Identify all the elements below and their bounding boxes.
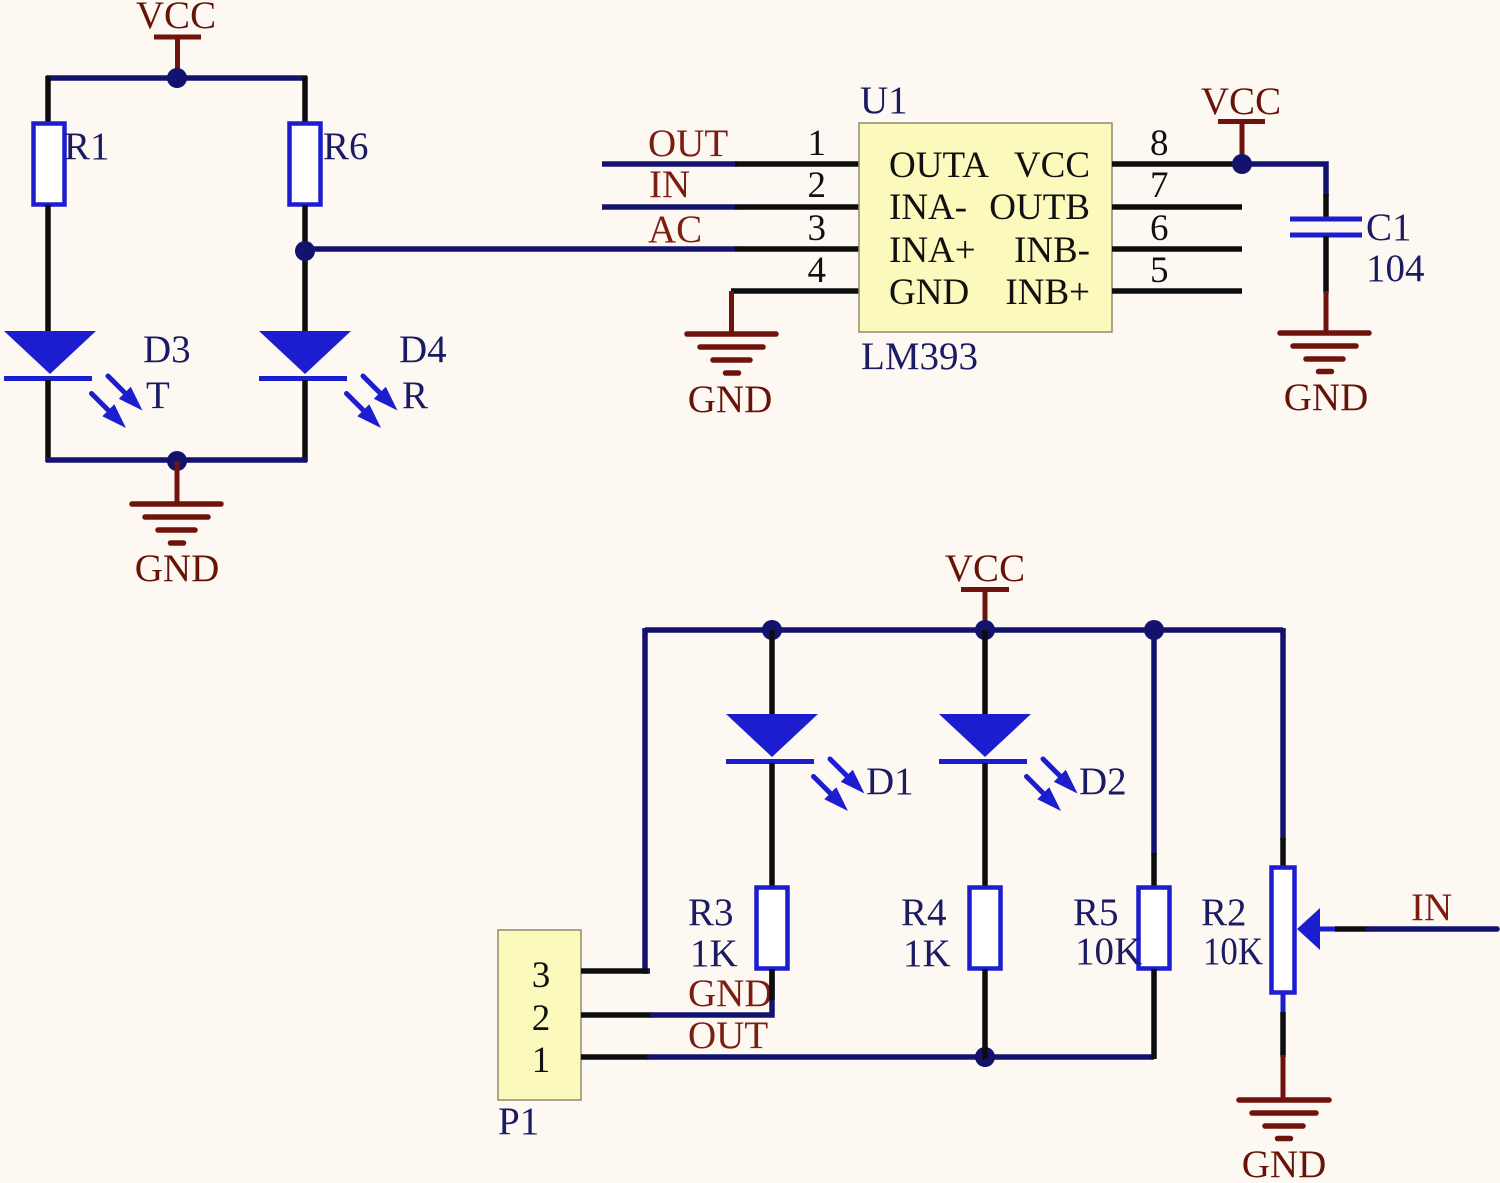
svg-text:GND: GND xyxy=(135,547,220,590)
svg-text:OUTA: OUTA xyxy=(889,145,989,186)
svg-text:GND: GND xyxy=(889,272,969,313)
svg-text:D3: D3 xyxy=(143,328,191,371)
node VCC junction xyxy=(167,68,187,88)
svg-text:VCC: VCC xyxy=(945,547,1025,590)
wire C1 bottom pin xyxy=(1323,236,1329,293)
resistor R5 10K xyxy=(1073,888,1170,974)
svg-text:INB-: INB- xyxy=(1014,230,1090,271)
LED D3 xyxy=(4,328,191,428)
wire D2 to R4 xyxy=(982,763,988,887)
svg-text:2: 2 xyxy=(808,165,827,206)
wire R6 bottom to D4 xyxy=(302,205,308,333)
ground symbol (C1) xyxy=(1280,291,1369,419)
wire D1 top lead xyxy=(769,630,775,716)
svg-text:R2: R2 xyxy=(1201,891,1247,934)
svg-text:1K: 1K xyxy=(690,932,738,975)
svg-text:104: 104 xyxy=(1366,247,1425,290)
wire IN net xyxy=(602,204,737,210)
svg-text:3: 3 xyxy=(532,955,551,996)
svg-text:OUT: OUT xyxy=(648,122,728,165)
pin 1 stub xyxy=(735,161,860,167)
svg-text:T: T xyxy=(146,374,170,417)
wire bottom rail left xyxy=(46,457,307,463)
node rail-VCC junction xyxy=(975,620,995,640)
svg-text:VCC: VCC xyxy=(1201,80,1281,123)
svg-text:D1: D1 xyxy=(866,760,914,803)
wire C1 top pin xyxy=(1323,194,1329,219)
svg-text:1: 1 xyxy=(808,123,827,164)
svg-text:GND: GND xyxy=(688,378,773,421)
svg-text:VCC: VCC xyxy=(1014,145,1090,186)
node rail-R5 junction xyxy=(1144,620,1164,640)
node pin8-VCC junction xyxy=(1232,154,1252,174)
wire R2 wiper pin xyxy=(1335,926,1369,932)
svg-text:IN: IN xyxy=(1411,886,1452,929)
svg-text:5: 5 xyxy=(1150,250,1169,291)
wire GND net to R3 xyxy=(650,969,772,1015)
wire R4 bottom pin xyxy=(982,969,988,1059)
svg-text:R4: R4 xyxy=(901,891,947,934)
resistor R3 1K xyxy=(688,888,788,976)
pin P1-3 stub xyxy=(581,968,648,974)
potentiometer R2 10K xyxy=(1201,868,1337,993)
svg-text:IN: IN xyxy=(649,163,690,206)
pin P1-2 stub xyxy=(581,1012,652,1018)
LED D1 xyxy=(726,714,914,811)
wire R2 top pin xyxy=(1280,838,1286,867)
pin 3 stub xyxy=(735,246,860,252)
wire OUT net xyxy=(602,161,737,167)
svg-text:OUT: OUT xyxy=(688,1014,768,1057)
svg-text:P1: P1 xyxy=(498,1100,539,1143)
LED D4 xyxy=(259,328,447,428)
svg-text:GND: GND xyxy=(1284,376,1369,419)
svg-text:4: 4 xyxy=(808,250,827,291)
svg-text:AC: AC xyxy=(648,208,702,251)
ground symbol (R2, bottom right) xyxy=(1239,1055,1329,1183)
power symbol VCC (top right) xyxy=(1201,80,1281,159)
pin 7 stub xyxy=(1112,204,1242,210)
power symbol VCC (top left) xyxy=(136,0,216,73)
pin 4 stub xyxy=(731,288,860,294)
wire R3 bottom pin xyxy=(769,969,775,1000)
wire VCC to C1 xyxy=(1242,164,1326,196)
svg-text:D2: D2 xyxy=(1079,760,1127,803)
wire D4 bottom lead xyxy=(302,380,308,462)
pin P1-1 stub xyxy=(581,1054,649,1060)
wire D1 to R3 xyxy=(769,763,775,887)
LED D2 xyxy=(939,714,1127,811)
ground symbol (pin 4) xyxy=(687,291,776,421)
svg-text:INA-: INA- xyxy=(889,187,967,228)
svg-text:2: 2 xyxy=(532,998,551,1039)
op-amp U1 LM393 xyxy=(859,79,1112,378)
svg-text:1: 1 xyxy=(532,1040,551,1081)
pin 5 stub xyxy=(1112,288,1242,294)
svg-text:R6: R6 xyxy=(323,125,369,168)
wire R6 top lead xyxy=(302,76,308,124)
svg-text:U1: U1 xyxy=(860,79,908,122)
wire R5 bottom pin xyxy=(1151,969,1157,1059)
wire VCC rail bottom xyxy=(645,627,1283,633)
connector P1 xyxy=(498,930,581,1143)
svg-text:R5: R5 xyxy=(1073,891,1119,934)
pin 8 stub xyxy=(1112,161,1242,167)
svg-text:R: R xyxy=(402,374,428,417)
ground symbol (top left) xyxy=(132,461,221,590)
wire D2 top lead xyxy=(982,630,988,716)
wire R1 top lead xyxy=(45,76,51,124)
pin 2 stub xyxy=(735,204,860,210)
wire top rail left xyxy=(46,75,307,81)
node R6-D4-AC junction xyxy=(295,241,315,261)
node OUT-R4 junction xyxy=(975,1047,995,1067)
wire D3 bottom lead xyxy=(45,380,51,462)
wire OUT net xyxy=(647,1054,1154,1060)
wire rail to R2 xyxy=(1280,628,1286,840)
svg-text:D4: D4 xyxy=(399,328,447,371)
svg-text:3: 3 xyxy=(808,208,827,249)
resistor R4 1K xyxy=(901,888,1001,976)
resistor R6 xyxy=(290,124,321,205)
node rail-D1 junction xyxy=(762,620,782,640)
power symbol VCC (bottom) xyxy=(945,547,1025,627)
svg-text:1K: 1K xyxy=(903,932,951,975)
wire R1 bottom to D3 xyxy=(45,205,51,333)
svg-text:7: 7 xyxy=(1150,165,1169,206)
svg-text:VCC: VCC xyxy=(136,0,216,37)
node GND junction left xyxy=(167,451,187,471)
svg-text:LM393: LM393 xyxy=(861,335,978,378)
svg-text:10K: 10K xyxy=(1075,930,1142,973)
resistor R1 xyxy=(34,124,65,205)
svg-text:8: 8 xyxy=(1150,123,1169,164)
capacitor C1 xyxy=(1290,206,1425,290)
svg-text:10K: 10K xyxy=(1203,930,1263,973)
svg-text:6: 6 xyxy=(1150,208,1169,249)
wire IN net xyxy=(1368,926,1497,932)
svg-text:OUTB: OUTB xyxy=(989,187,1090,228)
svg-text:INB+: INB+ xyxy=(1005,272,1090,313)
svg-text:GND: GND xyxy=(688,972,773,1015)
wire AC net xyxy=(305,246,737,252)
wire R5 top pin xyxy=(1151,853,1157,887)
svg-text:GND: GND xyxy=(1242,1143,1327,1178)
wire R2 bottom pin xyxy=(1281,993,1286,1014)
pin 6 stub xyxy=(1112,246,1242,252)
svg-text:R1: R1 xyxy=(64,125,110,168)
wire rail to P1 pin3 xyxy=(645,628,650,971)
svg-text:R3: R3 xyxy=(688,891,734,934)
wire rail to R5 xyxy=(1151,630,1157,855)
svg-text:C1: C1 xyxy=(1366,206,1412,249)
svg-text:INA+: INA+ xyxy=(889,230,976,271)
